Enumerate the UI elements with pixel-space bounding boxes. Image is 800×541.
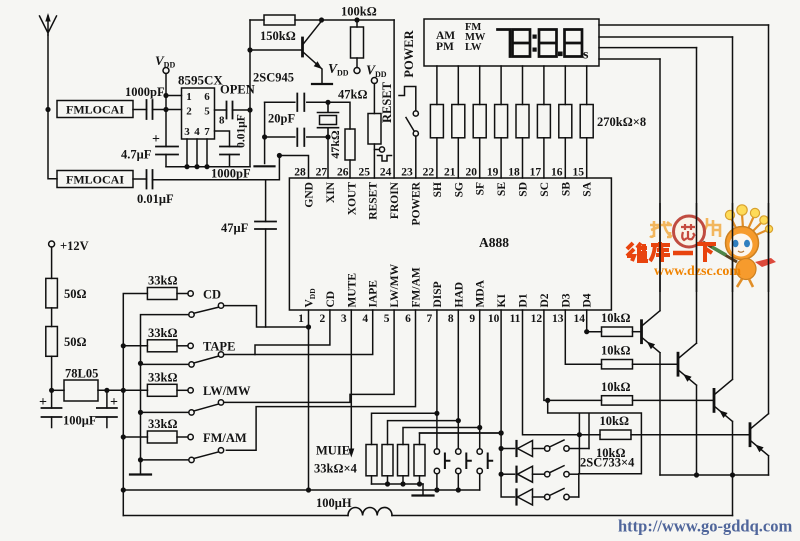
svg-text:CD: CD <box>203 287 221 301</box>
capacitor 0.01uF (box2) <box>133 178 147 180</box>
svg-text:GND: GND <box>304 182 316 208</box>
capacitor 100uF #2 <box>106 390 108 408</box>
svg-text:33kΩ: 33kΩ <box>148 274 177 288</box>
svg-text:+: + <box>39 395 47 410</box>
resistor 47k (reset) <box>368 114 381 145</box>
svg-text:10: 10 <box>488 313 500 325</box>
wire pin24 FROIN <box>393 20 395 178</box>
resistor 33k row LW/MW <box>123 389 147 391</box>
svg-text:LW: LW <box>465 42 482 53</box>
wire pin5 to cap <box>215 109 227 111</box>
resistor 33k (group) #3 <box>398 445 409 476</box>
resistor 10k #4 <box>600 430 631 439</box>
svg-text:22: 22 <box>423 167 435 179</box>
svg-text:33kΩ: 33kΩ <box>148 417 177 431</box>
wire pin7 column <box>436 310 438 490</box>
resistor 33k (group) #1 <box>366 445 377 476</box>
svg-text:20: 20 <box>465 167 477 179</box>
node antenna/box1 junction <box>45 107 50 112</box>
svg-text:SF: SF <box>475 182 487 195</box>
resistor 33k row TAPE <box>123 345 147 347</box>
wire pin8 <box>215 131 230 147</box>
rail 33k group bottoms <box>372 483 424 485</box>
svg-text:10kΩ: 10kΩ <box>601 311 630 325</box>
svg-text:RESET: RESET <box>380 81 394 123</box>
wire feed 33k resistor #1 <box>372 413 437 444</box>
svg-text:2: 2 <box>186 106 192 118</box>
+12V terminal <box>49 241 55 247</box>
svg-text:D3: D3 <box>560 293 572 307</box>
svg-text:5: 5 <box>384 313 390 325</box>
power-on pulse symbol <box>399 87 416 111</box>
resistor 33k (group) #2 <box>382 445 393 476</box>
capacitor 1000pF (pin8) <box>220 147 239 155</box>
capacitor 100uF #1 <box>42 408 62 417</box>
wire pin9 column <box>479 310 481 490</box>
wire pin2 CD <box>255 310 330 355</box>
pushbutton #1 <box>434 449 439 454</box>
svg-text:0.01μF: 0.01μF <box>236 114 248 148</box>
switch LW/MW <box>141 411 189 413</box>
svg-text:XIN: XIN <box>325 181 337 203</box>
resistor 50ohm #1 <box>46 278 58 308</box>
svg-text:4: 4 <box>362 313 368 325</box>
svg-text:13: 13 <box>552 313 564 325</box>
switch POWER <box>413 111 418 116</box>
svg-text:6: 6 <box>204 91 210 103</box>
svg-text:7: 7 <box>427 313 433 325</box>
svg-text:1: 1 <box>186 91 192 103</box>
resistor 150k <box>264 15 295 25</box>
ground (33k group) <box>422 484 424 496</box>
transistor 2SC733 #3 <box>713 389 716 411</box>
wire display seg SD <box>522 66 524 178</box>
wire pin8 column <box>457 310 459 490</box>
capacitor 4.7uF electrolytic <box>156 147 178 155</box>
ground (crystal) <box>264 137 266 164</box>
wire 20pF top <box>265 102 350 129</box>
svg-text:5: 5 <box>204 106 210 118</box>
svg-text:MDA: MDA <box>475 279 487 307</box>
wire pin12 to 10k #3 <box>544 310 602 400</box>
svg-text:s: s <box>583 48 589 63</box>
svg-text:19: 19 <box>487 167 499 179</box>
svg-text:33kΩ×4: 33kΩ×4 <box>314 462 358 476</box>
svg-text:10kΩ: 10kΩ <box>600 414 629 428</box>
svg-text:A888: A888 <box>479 235 509 250</box>
regulator 78L05 <box>52 389 64 391</box>
resistor 33k row FM/AM <box>123 436 147 438</box>
ground (switch bus) <box>130 473 151 475</box>
antenna <box>40 16 57 35</box>
Vdd terminal (8595CX) <box>163 68 169 74</box>
transistor 2SC733 #1 <box>640 321 643 343</box>
capacitor 47uF <box>265 180 267 222</box>
svg-text:LW/MW: LW/MW <box>203 384 251 398</box>
display module box <box>424 19 599 66</box>
svg-text:4.7μF: 4.7μF <box>121 148 152 162</box>
svg-text:20pF: 20pF <box>268 112 295 126</box>
svg-text:270kΩ×8: 270kΩ×8 <box>597 115 646 129</box>
svg-text:18: 18 <box>508 167 520 179</box>
pushbutton #3 <box>477 449 482 454</box>
svg-text:8: 8 <box>448 313 454 325</box>
svg-text:100μF: 100μF <box>63 414 97 428</box>
resistor 47k (XOUT) <box>345 129 355 160</box>
svg-text:MUIE: MUIE <box>316 444 350 458</box>
capacitor 20pF top <box>297 94 304 112</box>
wire pin1 Vdd column <box>308 310 310 490</box>
wire display seg SH <box>436 66 438 178</box>
svg-text:28: 28 <box>294 167 306 179</box>
watermark dzsc mascot <box>703 205 776 287</box>
svg-text:+: + <box>110 395 118 410</box>
svg-text:47kΩ: 47kΩ <box>338 88 367 102</box>
switch TAPE <box>141 363 189 365</box>
IC 8595CX <box>182 88 215 139</box>
svg-text:XOUT: XOUT <box>346 182 358 216</box>
svg-text:17: 17 <box>530 167 542 179</box>
svg-text:SC: SC <box>539 182 551 197</box>
svg-text:D1: D1 <box>518 293 530 307</box>
wire display to T1 <box>599 58 660 60</box>
wire top rail (Vdd bias) <box>250 19 394 21</box>
svg-text:100kΩ: 100kΩ <box>341 5 377 19</box>
IC A888 <box>289 178 611 310</box>
wire pin1 8595CX <box>166 95 182 97</box>
resistor 270k #5 <box>516 105 529 138</box>
svg-text:25: 25 <box>358 167 370 179</box>
pins 3,4,7 stubs <box>187 139 207 167</box>
wire feed 33k resistor #4 <box>420 433 502 445</box>
resistor 50ohm #2 <box>46 327 58 357</box>
resistor 270k #2 <box>452 105 465 138</box>
transistor 2SC733 #2 <box>677 353 680 375</box>
resistor 270k #3 <box>473 105 486 138</box>
svg-text:150kΩ: 150kΩ <box>260 29 296 43</box>
svg-text:21: 21 <box>444 167 456 179</box>
svg-text:FMLOCAI: FMLOCAI <box>66 173 124 187</box>
svg-text:100μH: 100μH <box>316 496 352 510</box>
crystal <box>325 100 330 105</box>
diode key #2 <box>501 473 514 475</box>
diode key #1 <box>501 448 514 450</box>
svg-text:FM/AM: FM/AM <box>411 267 423 307</box>
svg-text:0.01μF: 0.01μF <box>137 192 174 206</box>
svg-text:http://www.go-gddq.com: http://www.go-gddq.com <box>618 517 792 536</box>
wire display to T4 <box>599 24 769 26</box>
reset pulse symbol <box>378 156 392 162</box>
svg-text:16: 16 <box>551 167 563 179</box>
wire bottom rail <box>123 515 732 517</box>
diode key #3 <box>515 490 517 505</box>
svg-text:MUTE: MUTE <box>346 273 358 308</box>
wire pin3 MUTE arrow <box>350 310 352 454</box>
svg-text:+: + <box>152 132 160 147</box>
wire feed 33k resistor #2 <box>388 421 459 445</box>
svg-text:2SC945: 2SC945 <box>253 71 294 85</box>
wire pin13 to 10k #2 <box>565 310 601 364</box>
svg-text:2SC733×4: 2SC733×4 <box>580 456 635 470</box>
svg-text:SE: SE <box>496 182 508 196</box>
wire display seg SB <box>564 66 566 178</box>
svg-text:10kΩ: 10kΩ <box>601 344 630 358</box>
wire pin27 XIN <box>327 137 329 178</box>
wire feed 33k resistor #3 <box>403 428 480 445</box>
wire overlay through watermark <box>660 203 769 292</box>
capacitor 0.01uF (pin5) <box>227 102 233 119</box>
wire 20pF bottom <box>265 102 328 137</box>
svg-text:POWER: POWER <box>411 181 423 225</box>
svg-text:7: 7 <box>204 126 210 138</box>
reset test contact <box>374 149 379 151</box>
svg-text:SG: SG <box>453 182 465 197</box>
wire box1 to cap <box>133 109 147 111</box>
svg-text:TAPE: TAPE <box>203 340 235 354</box>
FMLOCAI box 2 <box>57 171 133 188</box>
svg-text:www.dzsc.com: www.dzsc.com <box>654 264 741 279</box>
wire pin14 to 10k #1 <box>587 310 602 332</box>
svg-text:D2: D2 <box>539 293 551 307</box>
wire display seg SG <box>457 66 459 178</box>
svg-text:DISP: DISP <box>432 281 444 307</box>
resistor 270k #7 <box>559 105 572 138</box>
wire rail down <box>732 475 734 516</box>
svg-text:27: 27 <box>316 167 328 179</box>
svg-text:FROIN: FROIN <box>389 181 401 219</box>
svg-text:8: 8 <box>219 115 225 127</box>
wire display to T2 <box>599 47 697 49</box>
svg-text:3: 3 <box>341 313 347 325</box>
ground rail of 8595CX <box>166 166 250 168</box>
wire 33k#4 feed from KI <box>420 432 502 434</box>
svg-text:8595CX: 8595CX <box>178 73 223 88</box>
resistor 100k <box>356 20 358 27</box>
svg-text:4: 4 <box>194 126 200 138</box>
svg-text:11: 11 <box>510 313 521 325</box>
svg-text:1000pF: 1000pF <box>211 167 251 181</box>
resistor 10k #1 <box>602 327 633 336</box>
capacitor 20pF bottom <box>297 129 304 147</box>
transistor 2SC945 <box>301 38 304 56</box>
wire pin6 to FM/AM switch <box>226 310 415 450</box>
wire display seg SC <box>543 66 545 178</box>
bus Vcc (33k feeds) <box>123 294 147 516</box>
svg-text:SH: SH <box>432 182 444 197</box>
svg-text:IAPE: IAPE <box>368 280 380 308</box>
resistor 10k #2 <box>602 360 633 369</box>
wire pin10 KI column <box>501 310 514 497</box>
svg-text:RESET: RESET <box>368 182 380 220</box>
svg-text:FM/AM: FM/AM <box>203 431 247 445</box>
svg-text:47μF: 47μF <box>221 221 249 235</box>
wire display seg SA <box>586 66 588 178</box>
svg-text:SA: SA <box>582 181 594 196</box>
wire key matrix loop <box>548 400 642 497</box>
capacitor 1000pF (antenna coupling) <box>147 100 153 119</box>
resistor 33k (group) #4 <box>414 445 425 476</box>
svg-text:24: 24 <box>380 167 392 179</box>
svg-text:12: 12 <box>531 313 543 325</box>
svg-text:9: 9 <box>469 313 475 325</box>
wire to pin28 GND <box>279 156 308 179</box>
svg-text:14: 14 <box>573 313 585 325</box>
wire CD switch to pin1 node <box>224 306 309 327</box>
switch key #1 <box>545 446 550 451</box>
svg-text:PM: PM <box>436 41 454 53</box>
resistor 270k #1 <box>430 105 443 138</box>
inductor 100uH <box>348 507 392 515</box>
pushbutton #2 <box>456 449 461 454</box>
svg-text:50Ω: 50Ω <box>64 287 87 301</box>
switch key #2 <box>545 472 550 477</box>
svg-text:SD: SD <box>518 182 530 197</box>
svg-text:HAD: HAD <box>453 282 465 308</box>
resistor 270k #4 <box>495 105 508 138</box>
wire antenna down <box>48 35 57 179</box>
svg-text:1000pF: 1000pF <box>125 85 165 99</box>
rail emitters <box>660 474 769 476</box>
wire cap to 8595CX pin2 <box>153 109 182 111</box>
switch CD <box>189 312 194 317</box>
resistor 270k #8 <box>580 105 593 138</box>
bus switch common <box>141 315 189 473</box>
svg-text:1: 1 <box>298 313 304 325</box>
svg-text:33kΩ: 33kΩ <box>148 326 177 340</box>
wire display seg SF <box>479 66 481 178</box>
svg-text:2: 2 <box>320 313 326 325</box>
ground (2SC945 emitter) <box>312 83 332 85</box>
wire display seg SE <box>500 66 502 178</box>
wire Vdd column <box>165 74 167 147</box>
svg-text:26: 26 <box>337 167 349 179</box>
svg-text:10kΩ: 10kΩ <box>601 380 630 394</box>
resistor 10k #3 <box>602 396 633 405</box>
watermark outline chars: zhao xin pian <box>650 216 720 247</box>
svg-text:CD: CD <box>325 291 337 308</box>
wire pin5 to LW/MW switch <box>224 310 394 402</box>
svg-text:+12V: +12V <box>60 239 89 253</box>
wire pin11 to 10k #4 <box>523 310 601 435</box>
svg-text:6: 6 <box>405 313 411 325</box>
transistor 2SC733 #4 <box>749 424 752 446</box>
svg-text:D4: D4 <box>582 293 594 307</box>
svg-text:78L05: 78L05 <box>65 367 98 381</box>
wire to pin25 <box>373 144 375 178</box>
svg-text:FMLOCAI: FMLOCAI <box>66 103 124 117</box>
wire base <box>250 49 303 51</box>
rail buttons bottom <box>123 489 479 491</box>
switch FM/AM <box>141 459 189 461</box>
svg-text:50Ω: 50Ω <box>64 335 87 349</box>
7-segment digits <box>498 30 583 57</box>
wire box2 run to GND elbow <box>153 156 280 180</box>
svg-text:33kΩ: 33kΩ <box>148 370 177 384</box>
FMLOCAI box 1 <box>57 101 133 118</box>
svg-text:23: 23 <box>401 167 413 179</box>
wire pin4 IAPE to TAPE switch <box>224 310 373 355</box>
switch key #3 <box>545 494 550 499</box>
wire base bias column <box>249 20 251 167</box>
resistor 33k row CD <box>147 288 177 300</box>
svg-text:3: 3 <box>184 126 190 138</box>
svg-text:SB: SB <box>560 182 572 196</box>
watermark text weikuyixia (red) <box>627 243 648 261</box>
svg-text:15: 15 <box>572 167 584 179</box>
wire display to T3 <box>599 36 733 38</box>
svg-text:POWER: POWER <box>402 29 416 77</box>
svg-text:KI: KI <box>496 294 508 308</box>
resistor 270k #6 <box>537 105 550 138</box>
svg-text:LW/MW: LW/MW <box>389 263 401 307</box>
svg-text:47kΩ: 47kΩ <box>328 130 342 159</box>
